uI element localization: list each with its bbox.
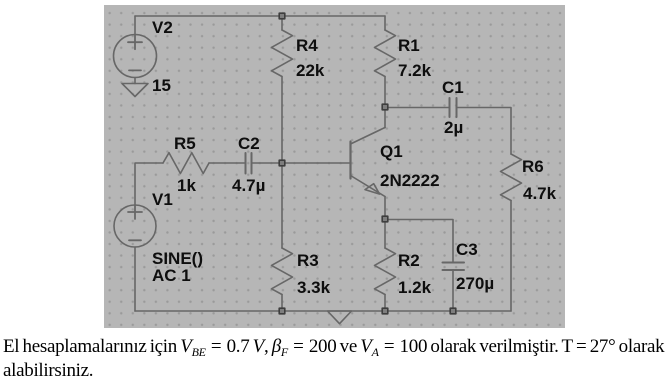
svg-text:V2: V2 (152, 18, 173, 37)
wire R4 top lead from rail (281, 16, 283, 30)
wire C3 bottom lead (452, 271, 454, 312)
svg-text:R5: R5 (174, 134, 196, 153)
svg-text:C2: C2 (238, 134, 260, 153)
wire collector node to C1 (385, 107, 449, 109)
resistor R2 (375, 248, 396, 295)
wire emitter node to R2 (384, 219, 386, 248)
resistor R6 (501, 154, 522, 201)
node bottom C3 (450, 308, 456, 314)
svg-text:R3: R3 (297, 251, 319, 270)
svg-text:R2: R2 (398, 251, 420, 270)
wire V2 top lead (134, 16, 136, 34)
svg-text:C1: C1 (442, 78, 464, 97)
node emitter / R2 / C3 (382, 216, 388, 222)
wire R1 top lead (384, 16, 386, 30)
wire R2 bottom lead (384, 295, 386, 312)
wire emitter node to C3 (385, 220, 453, 263)
node base / R4 / R3 (279, 160, 285, 166)
svg-text:4.7µ: 4.7µ (232, 176, 265, 195)
resistor R5 (163, 153, 209, 174)
svg-text:R1: R1 (398, 36, 420, 55)
resistor R4 (272, 30, 293, 77)
wire R1 bottom to collector node (384, 77, 386, 108)
svg-text:R4: R4 (296, 36, 318, 55)
wire V1 top lead to R5 (135, 163, 163, 205)
wire R3 bottom lead (281, 295, 283, 312)
svg-text:1.2k: 1.2k (398, 278, 432, 297)
wire top rail (135, 15, 385, 17)
node junction top rail / R4 (279, 13, 285, 19)
svg-text:AC 1: AC 1 (152, 266, 191, 285)
svg-text:2µ: 2µ (444, 118, 463, 137)
node collector / R1 / C1 (382, 104, 388, 110)
transistor Q1 (351, 107, 386, 219)
node bottom R2 (382, 308, 388, 314)
svg-text:7.2k: 7.2k (398, 61, 432, 80)
capacitor C1 (450, 98, 457, 117)
ground (below V2) (122, 84, 148, 97)
svg-text:15: 15 (152, 76, 171, 95)
svg-text:4.7k: 4.7k (523, 184, 557, 203)
caption text (3, 335, 664, 383)
svg-text:1k: 1k (177, 176, 196, 195)
svg-text:22k: 22k (296, 61, 325, 80)
wire R4 bottom to base node (281, 77, 283, 164)
wire R3 top lead (281, 163, 283, 248)
wire R6 bottom to bottom rail (510, 201, 512, 312)
voltage source V1 (114, 205, 156, 247)
capacitor C3 (443, 263, 465, 271)
wire C2 to Q1 base (252, 162, 350, 164)
voltage source V2 (114, 35, 157, 78)
svg-text:3.3k: 3.3k (297, 278, 331, 297)
ground (bottom center) (328, 311, 352, 324)
wire C1 to right branch corner (457, 108, 511, 155)
capacitor C2 (246, 153, 252, 174)
schematic gray background with grid dots (104, 5, 565, 328)
svg-text:270µ: 270µ (456, 274, 494, 293)
node bottom R3 (279, 308, 285, 314)
svg-text:2N2222: 2N2222 (380, 171, 440, 190)
resistor R3 (272, 248, 293, 295)
wire V2 to ground (134, 78, 136, 84)
svg-text:V1: V1 (152, 190, 173, 209)
wire R5 to C2 (209, 162, 245, 164)
wire bottom rail (135, 310, 511, 312)
svg-text:R6: R6 (522, 157, 544, 176)
resistor R1 (375, 30, 396, 77)
wire V1 bottom lead (134, 247, 136, 311)
svg-text:C3: C3 (456, 240, 478, 259)
svg-text:Q1: Q1 (380, 142, 403, 161)
